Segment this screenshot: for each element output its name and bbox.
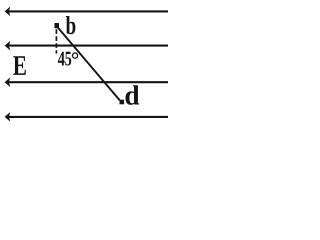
label d — [125, 85, 139, 105]
field line 2 — [7, 45, 168, 47]
line from b to d — [57, 27, 120, 101]
arrowhead of field line 2 — [5, 41, 11, 51]
arrowhead of field line 4 — [5, 112, 11, 122]
dashed vertical line below b — [55, 29, 57, 53]
point b (square dot) — [55, 23, 60, 28]
arrowhead of field line 3 — [5, 77, 11, 87]
angle label 45 degrees : digit 5 — [65, 52, 71, 66]
field line 4 — [7, 116, 168, 118]
label E (field label) — [13, 56, 26, 75]
angle label 45 degrees : degree symbol — [72, 52, 78, 59]
field line 3 — [7, 81, 168, 83]
field line 1 — [7, 10, 168, 12]
label b — [66, 16, 76, 34]
angle label 45 degrees : digit 4 — [58, 52, 65, 66]
arrowhead of field line 1 — [5, 7, 11, 17]
point d (square dot) — [120, 100, 125, 105]
